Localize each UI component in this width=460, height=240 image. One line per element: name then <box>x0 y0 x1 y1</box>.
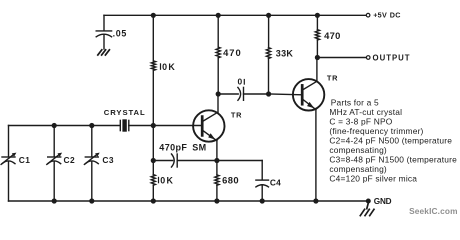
wire 470 to .01 node <box>217 58 219 94</box>
svg-text:C4: C4 <box>270 178 281 188</box>
wire left column (10K to crystal node) <box>152 70 154 125</box>
wire .05 cap branch top <box>103 15 105 30</box>
wire left column (470pF node to 10K lower) <box>152 161 154 175</box>
svg-text:0K: 0K <box>160 175 174 185</box>
wire 470pF right to C4 corner <box>177 160 262 162</box>
terminal OUTPUT <box>366 56 370 60</box>
resistor 33K <box>266 48 270 59</box>
svg-text:MHz AT-cut crystal: MHz AT-cut crystal <box>329 107 402 117</box>
svg-text:C1: C1 <box>19 155 31 165</box>
resistor 680 <box>215 175 219 185</box>
wire output line <box>317 57 366 59</box>
svg-text:.05: .05 <box>113 29 127 39</box>
capacitor 470pF SM <box>172 154 178 167</box>
resistor 470 (middle) <box>216 47 220 58</box>
junction dots 470pF net <box>151 158 220 163</box>
ground (bottom-right) <box>360 203 374 216</box>
svg-text:TR: TR <box>327 73 338 82</box>
svg-text:TR: TR <box>231 111 242 120</box>
junction dot output node <box>315 55 320 60</box>
wire .01 net left <box>218 93 238 95</box>
capacitor C2 (variable) <box>47 153 62 165</box>
wire 470pF net <box>153 160 172 162</box>
svg-text:C = 3-8 pF NPO: C = 3-8 pF NPO <box>329 116 392 126</box>
label 10K (upper) <box>160 63 161 70</box>
svg-text:C4=120 pF silver mica: C4=120 pF silver mica <box>329 174 417 184</box>
svg-text:+5VDC: +5VDC <box>373 10 401 19</box>
wire crystal to base node <box>129 125 154 127</box>
crystal XTAL <box>120 119 129 131</box>
svg-text:(fine-frequency trimmer): (fine-frequency trimmer) <box>329 126 423 136</box>
svg-text:33K: 33K <box>276 49 294 59</box>
svg-text:470: 470 <box>223 47 242 58</box>
svg-text:SeekIC.com: SeekIC.com <box>409 206 458 216</box>
capacitor C1 (variable) <box>1 153 16 165</box>
wire base node to TR1 base <box>153 125 201 127</box>
svg-text:C2=4-24 pF N500 (temperature: C2=4-24 pF N500 (temperature <box>329 136 452 146</box>
svg-text:0K: 0K <box>162 62 176 72</box>
resistor 470 (right) <box>315 30 319 40</box>
wire 680 branch <box>216 161 218 175</box>
wire TR1 emitter down <box>216 141 218 161</box>
svg-text:0: 0 <box>238 77 243 87</box>
wire C3 branch <box>91 126 93 202</box>
wire .01 net right <box>244 93 269 95</box>
wire right 470 branch top <box>316 15 318 29</box>
wire left column (crystal node to 470pF node) <box>152 126 154 161</box>
wire crystal net left section <box>9 125 121 127</box>
svg-text:C3=8-48 pF N1500 (temperature: C3=8-48 pF N1500 (temperature <box>329 155 457 165</box>
svg-text:GND: GND <box>374 197 392 206</box>
label 10K (lower) <box>158 177 159 184</box>
capacitor C3 (variable) <box>84 153 99 165</box>
svg-text:Parts for a 5: Parts for a 5 <box>331 97 379 107</box>
wire C4 branch top <box>261 161 263 180</box>
capacitor .05 <box>96 31 111 49</box>
terminal +5V DC <box>366 13 370 17</box>
svg-text:OUTPUT: OUTPUT <box>373 53 411 62</box>
note text block <box>329 97 457 183</box>
svg-text:470pFSM: 470pFSM <box>159 143 206 153</box>
wire left column bottom <box>152 185 154 201</box>
resistor 10K (lower) <box>151 175 155 186</box>
wire C2 branch <box>53 126 55 202</box>
wire bottom ground rail <box>9 200 367 202</box>
wire C1 branch <box>8 126 10 202</box>
transistor TR1 <box>193 110 224 141</box>
junction dots .01 net <box>216 91 272 96</box>
wire 33K branch top <box>268 15 270 47</box>
junction dots crystal net <box>52 123 156 128</box>
svg-text:CRYSTAL: CRYSTAL <box>104 108 146 117</box>
capacitor C4 <box>256 180 269 201</box>
wire middle column upper (rail to 470) <box>217 15 219 47</box>
wire left column upper (rail to 10K) <box>152 15 154 61</box>
junction dots bottom rail <box>52 198 319 203</box>
svg-text:compensating): compensating) <box>329 164 387 174</box>
wire 33K node to TR2 base <box>269 93 302 96</box>
terminal GND <box>366 199 370 203</box>
svg-text:680: 680 <box>222 174 239 185</box>
junction dots top rail <box>151 13 320 18</box>
capacitor .01 <box>238 87 244 100</box>
svg-text:470: 470 <box>324 30 341 41</box>
resistor 10K (upper) <box>151 61 155 71</box>
svg-text:C3: C3 <box>102 155 114 165</box>
ground (top-left) <box>98 50 110 55</box>
wire top +5V rail <box>104 14 366 16</box>
svg-text:C2: C2 <box>64 155 76 165</box>
wire 33K bottom <box>268 59 270 95</box>
transistor TR2 <box>293 79 324 110</box>
wire 680 bottom <box>216 185 218 201</box>
wire .01 node to TR1 collector <box>217 94 219 112</box>
wire 470 to output node <box>316 40 318 58</box>
wire TR2 collector <box>316 58 318 82</box>
svg-text:compensating): compensating) <box>329 145 387 155</box>
wire TR2 emitter down <box>315 110 317 201</box>
